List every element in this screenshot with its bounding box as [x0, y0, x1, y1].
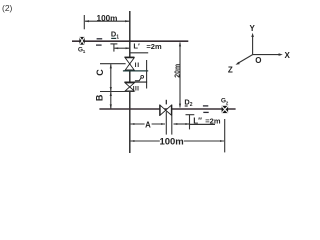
- svg-text:II: II: [135, 62, 140, 69]
- valve I center stem extension: [165, 112, 167, 135]
- label D2: [184, 98, 192, 109]
- dimension C extension bar top: [100, 63, 126, 65]
- label D1: [111, 30, 119, 41]
- label (2): [2, 3, 13, 13]
- axis Z: [228, 55, 253, 75]
- valve I right extension line: [171, 116, 173, 135]
- label B: [94, 94, 104, 101]
- label C: [95, 69, 105, 76]
- underline below L': [130, 52, 148, 54]
- axis X: [253, 51, 291, 60]
- svg-text:100m: 100m: [159, 136, 183, 147]
- valve G1: [79, 37, 84, 45]
- svg-text:(2): (2): [2, 3, 13, 13]
- label L'' = 2m: [193, 117, 221, 126]
- label II: [135, 62, 140, 69]
- svg-text:C: C: [95, 69, 105, 76]
- svg-text:L″: L″: [193, 117, 202, 126]
- svg-text:20m: 20m: [175, 64, 182, 78]
- svg-text:=2m: =2m: [205, 117, 221, 126]
- pipe break symbol top: [96, 39, 102, 45]
- svg-text:1: 1: [83, 49, 86, 54]
- svg-text:Y: Y: [250, 24, 256, 33]
- valve II: [124, 57, 134, 70]
- valve G2: [222, 106, 229, 113]
- svg-text:L′: L′: [133, 42, 140, 51]
- pipe bottom horizontal: [99, 108, 235, 110]
- dimension L'' tick: [186, 115, 195, 130]
- label G1: [78, 46, 86, 54]
- label L' = 2m: [133, 42, 162, 51]
- pipe top horizontal: [72, 40, 188, 42]
- svg-text:Z: Z: [228, 66, 233, 75]
- dimension 100m top: [84, 14, 129, 30]
- dimension C: [110, 64, 112, 91]
- svg-text:A: A: [145, 120, 151, 129]
- dimension L' arrows: [114, 47, 129, 49]
- label l0 leader glyph: [135, 75, 144, 80]
- svg-text:X: X: [285, 51, 291, 60]
- svg-text:2: 2: [190, 102, 193, 108]
- dimension L'' arrows: [173, 123, 215, 125]
- dimension 100m bottom: [130, 136, 224, 147]
- svg-text:2: 2: [226, 100, 229, 105]
- axis Y: [250, 24, 256, 54]
- pipe break symbol bottom: [203, 106, 209, 113]
- coordinate axes origin O: [255, 56, 261, 65]
- dimension 20m: [175, 42, 182, 108]
- svg-text:=2m: =2m: [146, 42, 162, 51]
- valve I: [160, 105, 172, 116]
- dimension B: [110, 92, 112, 109]
- svg-text:B: B: [94, 94, 104, 101]
- valve III: [125, 83, 134, 91]
- dimension L' ticks: [110, 44, 117, 52]
- valve II bottom bar extended: [123, 70, 148, 72]
- label I: [165, 100, 167, 105]
- label G2: [221, 98, 229, 106]
- dimension A: [130, 120, 165, 130]
- right bracket vertical line: [146, 60, 148, 89]
- svg-text:O: O: [255, 56, 261, 65]
- riser vertical line: [129, 11, 131, 153]
- label III: [133, 86, 140, 93]
- valve III top bar extended: [124, 81, 147, 83]
- extension line right for 100m: [224, 119, 226, 152]
- svg-text:1: 1: [116, 34, 119, 40]
- svg-text:100m: 100m: [97, 14, 118, 23]
- shared extension bar C/B and valve III bottom bar: [100, 91, 134, 93]
